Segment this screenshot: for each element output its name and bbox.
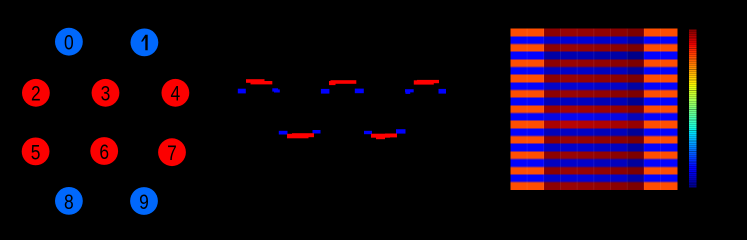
svg-text:8: 8 <box>64 190 74 214</box>
svg-text:3: 3 <box>101 82 111 106</box>
svg-text:6: 6 <box>99 140 109 164</box>
svg-text:5: 5 <box>31 141 41 165</box>
svg-text:4: 4 <box>171 82 181 106</box>
svg-text:0: 0 <box>64 31 74 55</box>
svg-text:7: 7 <box>167 142 177 166</box>
svg-text:2: 2 <box>31 82 41 106</box>
svg-text:9: 9 <box>139 190 149 214</box>
